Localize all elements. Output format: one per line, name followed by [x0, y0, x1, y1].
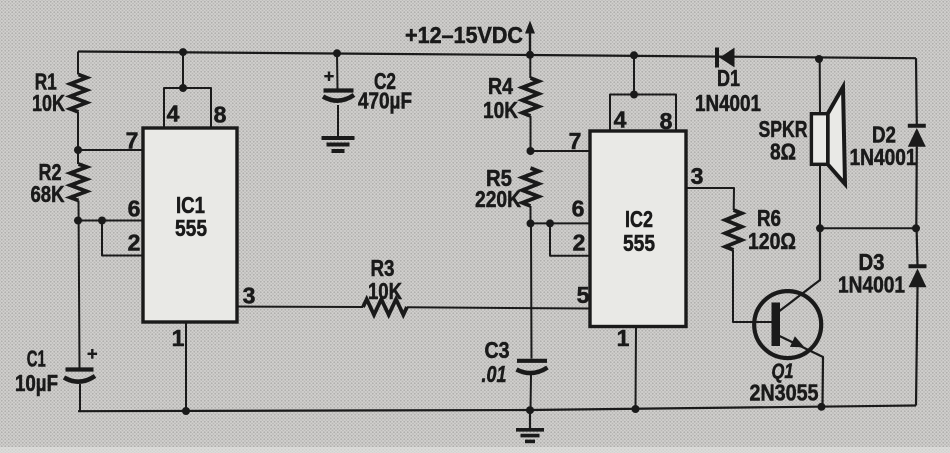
svg-text:68K: 68K	[31, 181, 65, 207]
wire: Q1 emitter to bottom rail	[780, 336, 824, 407]
wire: R2 to C1 segment	[79, 201, 80, 368]
wire: C1 to bottom rail	[79, 384, 81, 411]
svg-text:5: 5	[577, 282, 590, 308]
svg-text:IC2: IC2	[625, 206, 653, 232]
svg-text:555: 555	[623, 230, 655, 256]
wire: pin 7 IC1	[78, 149, 143, 151]
wire: speaker to collector junction	[819, 164, 821, 229]
svg-text:10K: 10K	[483, 97, 518, 123]
svg-text:10µF: 10µF	[15, 370, 58, 396]
wire: pin6 junction down to C3	[530, 223, 533, 358]
node: junction bottom rail / IC1 pin1	[182, 407, 190, 415]
wire: top rail to R4	[529, 55, 531, 78]
svg-text:1N4001: 1N4001	[838, 272, 905, 298]
wire: IC1 pins 4/8 bracket	[164, 88, 211, 128]
ground (below C2)	[322, 136, 355, 140]
op-amp/timer IC2 body	[590, 131, 686, 327]
svg-text:C3: C3	[485, 337, 510, 363]
node: junction bottom rail / IC2 pin1	[632, 405, 640, 413]
node: junction left rail / pin7 wire	[74, 146, 82, 154]
node: junction bottom rail / C3 ground	[526, 406, 534, 414]
wire: R1 to R2 segment	[77, 112, 79, 164]
svg-text:2: 2	[573, 230, 586, 256]
node: junction top rail above IC1	[179, 48, 187, 56]
svg-text:7: 7	[569, 128, 582, 154]
svg-text:2N3055: 2N3055	[750, 380, 819, 406]
resistor R3	[363, 299, 407, 315]
wire: R3 to IC2 pin5	[407, 307, 590, 308]
wire: top rail to speaker	[819, 59, 821, 114]
capacitor C1	[66, 367, 94, 371]
node: junction R4/R5/pin7 IC2	[527, 147, 535, 155]
power arrow +V	[529, 31, 531, 55]
svg-text:10K: 10K	[32, 90, 65, 116]
wire: right vertical rail (top to D2)	[915, 58, 918, 125]
wire: IC2 pins 4/8 bracket	[610, 95, 676, 132]
arrow: Q1 emitter	[790, 336, 805, 347]
svg-text:6: 6	[128, 196, 141, 222]
wire: IC1 pin3 to R3	[237, 306, 363, 309]
speaker SPKR cone	[828, 87, 845, 184]
speaker SPKR frame	[811, 114, 827, 165]
svg-text:C1: C1	[27, 346, 46, 372]
wire: midpoint junction to D3	[915, 228, 918, 266]
wire: +V top rail	[78, 52, 916, 59]
wire: top rail to C2	[336, 53, 339, 88]
wire: D3 to bottom rail	[916, 287, 918, 406]
wire: pin 6 IC2	[531, 222, 591, 224]
svg-text:7: 7	[126, 128, 139, 154]
svg-text:3: 3	[691, 163, 704, 189]
node: junction left rail / pin6 wire	[74, 217, 82, 225]
diode D3	[909, 264, 927, 268]
wire: R6 to Q1 base	[733, 250, 772, 322]
svg-text:220K: 220K	[475, 186, 521, 212]
transistor Q1 base bar	[772, 303, 781, 347]
node: junction D2/D3 midpoint	[912, 224, 920, 232]
svg-text:D1: D1	[717, 65, 740, 91]
svg-text:6: 6	[572, 196, 585, 222]
wire: ground bottom rail	[78, 406, 916, 412]
wire: C2 to ground	[337, 105, 339, 137]
svg-text:470µF: 470µF	[358, 88, 412, 114]
svg-text:1N4001: 1N4001	[695, 90, 761, 116]
node: junction top rail / speaker	[815, 55, 823, 63]
wire: R5 to pin6 junction	[530, 206, 532, 223]
svg-text:+12–15VDC: +12–15VDC	[405, 22, 523, 48]
svg-text:8Ω: 8Ω	[770, 139, 796, 165]
diode D2	[908, 124, 926, 128]
svg-text:.01: .01	[482, 361, 507, 387]
wire: Q1 collector to speaker junction	[780, 229, 821, 311]
node: junction bottom rail / Q1 emitter	[818, 403, 826, 411]
wire: pin 6 IC1	[78, 220, 143, 222]
capacitor C3	[517, 359, 547, 363]
wire: pin 2 IC2 bracket	[550, 223, 590, 255]
node: junction top rail above IC2	[630, 51, 638, 59]
wire: D2 to midpoint junction	[915, 147, 918, 229]
transistor Q1 circle	[754, 291, 821, 358]
wire: pin 3 IC2 to R6	[686, 188, 734, 210]
node: junction pin6/pin2 tap IC2	[546, 219, 554, 227]
wire: R4 to pin7 junction	[530, 116, 532, 151]
resistor R1	[70, 75, 86, 113]
svg-text:8: 8	[660, 108, 673, 134]
resistor R6	[725, 210, 741, 250]
wire: left vertical rail segment (top rail to R1)	[77, 52, 79, 75]
wire: top rail to IC2 pins 4/8 bracket	[633, 55, 635, 94]
wire: collector junction to diode ladder	[820, 227, 916, 229]
svg-text:120Ω: 120Ω	[748, 228, 796, 254]
resistor R4	[522, 78, 538, 116]
svg-text:1N4001: 1N4001	[850, 144, 917, 170]
svg-text:R4: R4	[488, 73, 513, 99]
node: junction on IC2 supply bracket	[630, 91, 638, 99]
capacitor C2	[324, 88, 354, 92]
node: junction speaker/collector/D2-D3 wire	[816, 224, 824, 232]
svg-text:2: 2	[128, 230, 141, 256]
node: junction R5 / pin6 IC2	[527, 219, 535, 227]
node: junction pin6/pin2 tap	[98, 217, 106, 225]
svg-text:8: 8	[214, 102, 227, 128]
wire: top rail to IC1 pins 4/8 bracket	[182, 52, 184, 88]
node: junction top rail / R4 branch	[526, 51, 534, 59]
svg-text:1: 1	[172, 325, 185, 351]
wire: pin 2 IC1 bracket	[102, 221, 143, 256]
wire: pin 7 IC2	[531, 150, 591, 152]
diode D1	[715, 48, 719, 68]
wire: pin 1 IC1 to bottom rail	[185, 322, 187, 411]
node: junction on IC1 supply bracket	[179, 84, 187, 92]
svg-text:4: 4	[614, 107, 627, 133]
resistor R2	[70, 164, 86, 201]
svg-text:555: 555	[175, 215, 207, 241]
wire: C3 to bottom rail	[530, 375, 533, 410]
wire: pin 1 IC2 to bottom rail	[635, 327, 638, 410]
svg-text:1: 1	[617, 325, 630, 351]
resistor R5	[522, 168, 538, 206]
svg-text:10K: 10K	[368, 278, 402, 304]
svg-text:3: 3	[243, 283, 256, 309]
svg-text:4: 4	[167, 101, 180, 127]
op-amp/timer IC1 body	[143, 128, 237, 322]
ground (below bottom rail)	[529, 410, 531, 429]
node: junction top rail / C2	[333, 49, 341, 57]
